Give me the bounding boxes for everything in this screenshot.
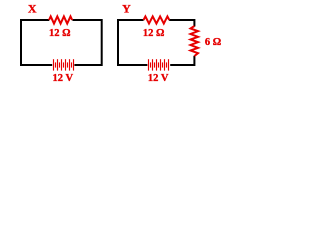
resistor R1 (12 ohm, top of X) (49, 16, 72, 23)
resistor R3 (6 ohm, right side of Y) (191, 26, 199, 56)
svg-text:X: X (28, 2, 37, 16)
wire left/top/bottom of circuit Y (118, 20, 147, 65)
wire top-right stub of circuit Y (169, 20, 194, 27)
svg-text:12 Ω: 12 Ω (49, 28, 71, 39)
wire right/top/bottom of circuit X (72, 20, 101, 65)
svg-text:Y: Y (122, 2, 131, 16)
svg-text:12 V: 12 V (148, 73, 169, 84)
battery B2 (12 V, bottom of Y) (149, 59, 169, 70)
resistor R2 (12 ohm, top of Y) (144, 16, 170, 23)
svg-text:12 V: 12 V (53, 73, 74, 84)
svg-text:12 Ω: 12 Ω (143, 28, 165, 39)
wire left/top/bottom of circuit X (21, 20, 52, 65)
battery B1 (12 V, bottom of X) (54, 59, 74, 70)
wire bottom-right stub of circuit Y (170, 56, 194, 65)
svg-text:6 Ω: 6 Ω (205, 37, 221, 48)
